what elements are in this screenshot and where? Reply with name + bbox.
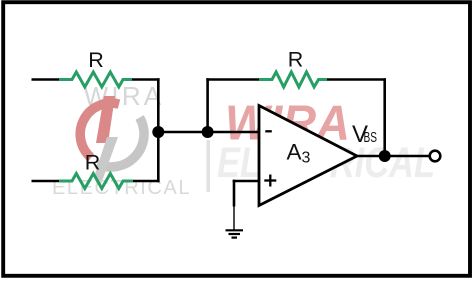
svg-text:BS: BS — [364, 130, 378, 146]
op-amp A3 — [259, 106, 357, 206]
wire: feedback left vertical — [206, 78, 209, 132]
wire: node A to inverting input — [158, 131, 259, 134]
resistor R3 (feedback) — [259, 72, 327, 87]
svg-text:R: R — [85, 151, 101, 175]
wire: R2 right lead — [132, 180, 160, 183]
resistor R2 — [59, 174, 133, 189]
node A (junction dot) — [152, 126, 164, 138]
output node dot — [379, 150, 391, 162]
svg-text:R: R — [88, 48, 104, 72]
wire: ground lead thin — [233, 206, 235, 230]
wire: R1 right lead to corner — [131, 78, 160, 81]
wire: ground lead thick — [233, 180, 236, 207]
op-amp plus sign — [264, 179, 276, 181]
watermark: logo gray bolt (lower) — [94, 137, 118, 184]
resistor R1 — [59, 72, 132, 87]
watermark: logo red bolt (upper) — [96, 96, 115, 143]
node B (junction dot) — [202, 126, 214, 138]
wire: output — [356, 155, 429, 158]
watermark: logo gray crescent — [97, 118, 144, 167]
output terminal — [430, 151, 441, 162]
wire: R1 left lead — [32, 78, 62, 81]
wire: R2 left lead — [32, 180, 62, 183]
wire: feedback right vertical — [383, 78, 386, 156]
wire: feedback top-right — [326, 78, 386, 81]
wire: feedback top-left — [206, 78, 260, 81]
watermark: logo red crescent — [80, 103, 119, 158]
ground — [226, 229, 244, 231]
op-amp minus sign — [265, 130, 272, 132]
svg-text:R: R — [288, 48, 304, 72]
wire: non-inverting input — [233, 180, 260, 183]
wire: vertical bus at x=158 — [157, 78, 160, 182]
watermark: separator bar — [207, 140, 211, 192]
